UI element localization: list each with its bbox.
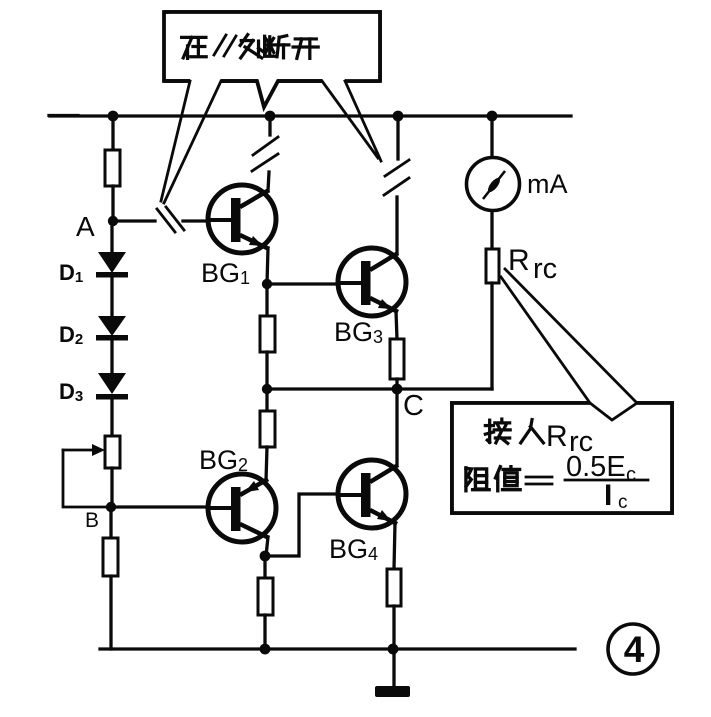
wire resistor to bottom rail [263,615,266,649]
node dot on rail at left column [108,111,119,122]
node dot bottom rail left column [260,644,271,655]
svg-text:mA: mA [527,169,568,199]
resistor below B [103,538,118,576]
wire BG3 collector up to break [395,197,398,254]
break marks at A wire [157,207,184,232]
svg-text:rc: rc [533,253,557,285]
wire BG3 emitter down [396,311,397,339]
wire meter to resistor Rrc [490,211,493,249]
callout box "break at // points" [164,12,380,107]
potentiometer body [105,436,120,468]
callout notch [590,403,637,420]
svg-text:I: I [604,479,612,512]
wire break to BG1 base [183,219,210,222]
svg-text:c: c [626,464,636,486]
wire resistor to BG2 emitter [266,447,267,481]
node dot bottom rail BG4 column [388,644,399,655]
callout notch middle [257,81,278,107]
svg-text:C: C [403,390,424,422]
callout text 在//处断开 [182,37,207,58]
wire resistor to bottom rail [109,576,112,649]
wire mid rail to lower resistor [265,389,268,411]
wiper arrowhead [92,444,105,456]
stepped wire junction to BG4 base [265,494,339,556]
transistor BG1 [208,185,276,253]
top bus wire (+V rail) [50,114,571,117]
wire BG1 emitter down to node [267,248,268,284]
wire A to D1 [110,221,113,253]
break marks above BG1 [252,137,278,171]
node A dot [108,216,118,226]
wire rail to meter [490,116,493,159]
node dot on rail at BG3 column [393,111,404,122]
wire resistor to mid rail [265,352,268,389]
wire BG2 collector to junction [266,537,268,556]
svg-text:R: R [546,420,568,453]
callout text line2 阻值 = fraction [466,468,489,491]
wiper arrow wire [63,449,95,452]
diode D1 [96,252,128,278]
wire resistor to node C [395,379,398,389]
transistor BG2 [208,474,276,542]
node B dot [106,502,116,512]
svg-text:0.5E: 0.5E [566,451,626,483]
wire break to rail (BG1 column stub) [268,116,271,135]
svg-text:B: B [85,509,99,532]
wire (thicker scanned start of rail) [49,114,78,117]
wire BG4 emitter down [394,523,395,569]
transistor BG3 [338,248,406,316]
wiper loop wire to B [63,450,110,507]
wire BG1 collector up to break [268,172,269,191]
wire A to break [113,219,155,222]
wire break to rail (BG3 column stub) [396,116,399,159]
svg-text:c: c [618,492,628,513]
wire pot to node B [110,468,113,507]
resistor below BG4 [387,569,401,606]
wire node to BG3 base [267,282,339,285]
node dot on rail at meter column [487,111,498,122]
node on mid rail left [262,384,272,394]
wire D1 to D2 [110,277,113,317]
bottom rail wire [100,647,575,650]
wire rail to resistor (left column) [111,116,114,150]
wire D2 to D3 [110,340,113,374]
resistor below BG3 [390,339,404,379]
wire resistor to bottom rail [392,606,395,649]
callout tail left (to break near A) [161,81,221,203]
mid rail wire [267,387,492,390]
diode D3 [96,373,128,400]
callout tail lines from Rrc [501,269,637,403]
resistor mid left column [260,316,275,352]
wire Rrc to mid rail [490,283,493,389]
node dot on rail at BG1 column [265,111,276,122]
wire to ground [392,649,395,688]
wire BG4 collector up to node C [395,389,398,465]
resistor above BG2 [260,411,275,447]
svg-text:4: 4 [624,629,645,670]
diode D2 [96,316,128,341]
svg-text:R: R [508,244,530,277]
junction below BG2 [260,551,271,562]
callout box "connect Rrc, resistance = 0.5Ec/Ic" [452,403,672,513]
figure number circled 4 [608,624,658,674]
node C dot [392,384,403,395]
wire B to BG2 base [111,505,210,508]
wire resistor to node A [111,186,114,221]
wire node to resistor [265,284,268,316]
callout tail right (to break above BG3) [322,81,381,161]
ground [375,686,410,697]
transistor BG4 [338,460,406,528]
resistor below BG2 [258,578,273,615]
svg-text:A: A [76,211,95,242]
wire junction to resistor [263,556,266,578]
milliammeter mA [467,158,520,211]
resistor Rrc [486,249,499,283]
wire D3 to potentiometer [110,399,113,436]
resistor (left top) [105,150,120,186]
break marks above BG3 [384,160,409,195]
wire B to lower resistor [109,507,112,538]
callout text line1 接入 Rrc [485,419,510,443]
node below BG1 [262,279,272,289]
